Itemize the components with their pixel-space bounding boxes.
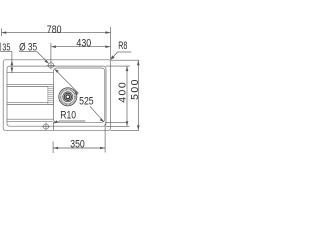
dimension 430 xyxy=(51,43,111,63)
drainboard bottom pair xyxy=(7,118,53,120)
sink rim inner rect xyxy=(7,66,106,126)
svg-text:350: 350 xyxy=(70,138,85,150)
diagonal 525 leader upper segment to bowl corner xyxy=(54,69,78,95)
diagonal 525 leader lower segment to bowl corner xyxy=(90,106,104,122)
dimension 500 (vertical) xyxy=(137,60,140,130)
dimension 780 xyxy=(2,27,111,60)
svg-text:R8: R8 xyxy=(118,40,127,52)
svg-text:525: 525 xyxy=(79,95,94,107)
drainboard top line xyxy=(7,72,54,74)
sink outer rect xyxy=(3,60,110,131)
drainboard groove pair 2 xyxy=(7,101,48,103)
ribbed band next to bowl (ladder) xyxy=(48,86,53,104)
right side extension lines xyxy=(105,60,139,130)
svg-text:780: 780 xyxy=(47,24,62,36)
svg-text:430: 430 xyxy=(76,37,91,49)
tap hole crosshair (bottom, reversible) xyxy=(42,122,50,130)
svg-text:400: 400 xyxy=(117,81,128,103)
drain: concentric circles xyxy=(59,88,77,106)
drainboard groove pair 1 xyxy=(7,83,54,85)
dimension 400 (vertical) xyxy=(126,66,129,126)
svg-text:500: 500 xyxy=(130,78,141,100)
svg-text:R10: R10 xyxy=(60,109,76,121)
bowl xyxy=(54,68,105,122)
tap hole crosshair (top) xyxy=(47,61,55,69)
dimension 350 (bottom) xyxy=(53,122,105,153)
